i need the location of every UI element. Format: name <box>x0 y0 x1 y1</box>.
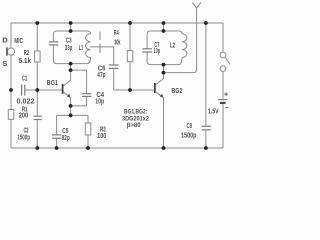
junction top rail / tank1 feed <box>69 21 73 25</box>
svg-text:30k: 30k <box>114 37 120 46</box>
svg-text:10p: 10p <box>95 96 104 105</box>
svg-text:+: + <box>224 90 229 99</box>
junction tank2 top <box>162 29 166 33</box>
transistor BG2 emitter arrow <box>156 92 162 97</box>
transistor BG1 base bar <box>62 84 64 94</box>
wire C8 branch (top rail through C8 to ground) <box>205 23 207 126</box>
svg-text:100: 100 <box>97 131 106 140</box>
switch S lever <box>225 57 230 64</box>
wire BG2 collector <box>156 73 164 85</box>
wire R4 branch (top rail through R4 to base node) <box>129 23 131 90</box>
junction ground / C2 <box>35 146 39 150</box>
wire left rail middle (MIC to C1 node) <box>10 55 12 90</box>
battery B positive plate <box>218 99 228 101</box>
wire top rail to tank2 top <box>163 23 165 31</box>
wire C8 bottom to ground <box>205 130 207 148</box>
junction ground / C5 <box>55 146 59 150</box>
svg-text:BG1: BG1 <box>47 78 59 87</box>
resistor R1 body <box>8 110 14 120</box>
resistor R3 body <box>85 123 91 135</box>
svg-text:33p: 33p <box>65 43 72 52</box>
capacitor C3 plates <box>49 42 58 45</box>
battery minus sign <box>225 106 228 108</box>
wire tank2 bottom to collector node <box>163 65 165 73</box>
wire top supply rail <box>11 22 223 24</box>
svg-text:1.5V: 1.5V <box>208 106 219 115</box>
wire emitter bypass row (C5 to R3) <box>57 114 88 116</box>
wire C5 top drop <box>56 115 58 134</box>
resistor R2 body <box>35 51 41 62</box>
junction top rail / R2 <box>35 21 39 25</box>
wire C2 bottom to ground <box>36 120 38 149</box>
junction collector / antenna wire <box>162 71 166 75</box>
wire R3 top drop <box>87 115 89 123</box>
junction emitter / bypass row <box>69 114 73 118</box>
wire right branch top (rail to switch) <box>222 23 224 52</box>
capacitor C2 plates <box>34 116 42 119</box>
node tank1 loop (C3/L1 frame) <box>53 31 90 42</box>
capacitor C1 plates <box>22 85 25 96</box>
svg-text:β>80: β>80 <box>127 122 141 129</box>
junction collector / C4 <box>69 68 73 72</box>
node tank2 loop (C7/L2 frame) <box>147 31 182 49</box>
node tank1 bottom <box>53 45 90 64</box>
wire R3 bottom to ground <box>87 135 89 148</box>
capacitor C7 plates <box>142 49 152 52</box>
wire left rail lower (through R1 to ground) <box>10 90 12 148</box>
wire C4 bottom to emitter <box>71 96 87 106</box>
svg-text:C1: C1 <box>22 73 28 82</box>
junction ground / C8 <box>204 146 208 150</box>
wire BG1 emitter vertical <box>70 97 72 115</box>
svg-text:MIC: MIC <box>14 36 23 45</box>
capacitor C8 plates <box>201 126 211 130</box>
svg-text:1500p: 1500p <box>17 132 30 141</box>
switch S lower contact <box>220 66 226 72</box>
wire C5 bottom to ground <box>56 138 58 148</box>
svg-text:47p: 47p <box>97 70 105 79</box>
capacitor C4 plates <box>82 94 91 97</box>
junction emitter / C4 return <box>69 104 73 108</box>
wire C6 bottom to BG2 base row <box>114 68 155 90</box>
svg-text:C8: C8 <box>187 121 193 130</box>
capacitor C6 plates <box>109 65 119 68</box>
svg-text:L1: L1 <box>79 43 84 52</box>
transistor BG2 base bar <box>154 83 156 93</box>
switch S upper contact <box>220 52 226 58</box>
wire top rail to tank1 top <box>70 23 72 31</box>
wire BG2 emitter to ground <box>163 97 165 148</box>
microphone MIC bar <box>6 47 8 56</box>
wire collector node to antenna <box>164 8 197 72</box>
wire battery to ground rail <box>222 103 224 148</box>
L1 adjustable core dashes <box>99 32 101 41</box>
wire BG1 base (C1 right plate to base bar) <box>25 89 62 91</box>
wire C4 top branch from collector <box>71 70 87 94</box>
resistor R4 body <box>127 51 133 62</box>
wire left rail upper (to MIC) <box>10 23 12 48</box>
junction top rail / tank2 feed <box>162 21 166 25</box>
node tank2 bottom <box>147 52 182 65</box>
junction tank2 bottom <box>162 63 166 67</box>
svg-text:10p: 10p <box>154 46 161 55</box>
transistor BG1 emitter arrow <box>63 92 69 97</box>
junction C1 left / MIC <box>9 88 13 92</box>
junction BG1 base node <box>35 88 39 92</box>
wire L1 tap to C6 <box>90 47 114 65</box>
capacitor C5 plates <box>52 135 61 138</box>
svg-text:R4: R4 <box>114 28 119 37</box>
wire R2 branch vertical (top rail through R2 to C2) <box>36 23 38 116</box>
inductor L1 <box>86 34 91 58</box>
battery B negative plate <box>220 102 226 104</box>
svg-text:1500p: 1500p <box>181 131 197 140</box>
junction R4 / BG2 base <box>128 88 132 92</box>
microphone MIC circle <box>7 48 14 55</box>
wire switch to battery <box>222 72 224 100</box>
junction ground / R3 <box>86 146 90 150</box>
junction ground / BG2 emitter <box>162 146 166 150</box>
junction top rail / C8 <box>204 21 208 25</box>
wire bottom ground rail <box>11 147 223 149</box>
junction tank1 top <box>69 29 73 33</box>
svg-text:BG2: BG2 <box>171 86 182 95</box>
svg-text:D: D <box>2 36 8 45</box>
inductor L2 <box>182 34 187 58</box>
svg-text:200: 200 <box>19 111 28 120</box>
antenna <box>192 2 201 8</box>
svg-text:L2: L2 <box>170 40 175 49</box>
junction tank1 bottom / collector <box>69 62 73 66</box>
svg-text:82p: 82p <box>62 133 71 142</box>
svg-text:S: S <box>2 59 7 68</box>
wire tank1 bottom to BG1 collector <box>63 64 70 86</box>
junction top rail / R4 <box>128 21 132 25</box>
svg-text:5.1k: 5.1k <box>19 56 32 65</box>
